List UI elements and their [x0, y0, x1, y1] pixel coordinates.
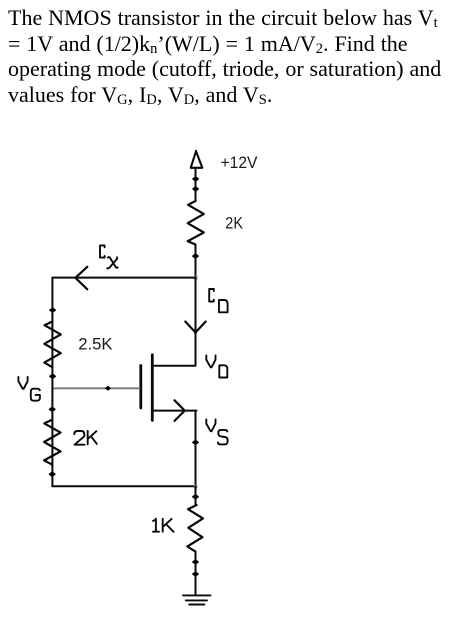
label VG — [18, 377, 40, 401]
bottom wire — [52, 485, 195, 487]
junction dot — [50, 374, 56, 379]
resistor 2K (left) — [44, 420, 61, 465]
node drain-top junction — [194, 276, 198, 280]
junction dot — [193, 254, 199, 259]
resistor 2.5K — [44, 321, 61, 367]
junction dot — [193, 440, 199, 445]
junction dot — [49, 407, 55, 412]
label 2K (left, stick font) — [74, 431, 97, 445]
label ID — [209, 289, 227, 312]
source vertical wire — [195, 411, 197, 487]
node source-bottom junction — [194, 484, 198, 488]
+12V supply arrow — [191, 151, 203, 168]
resistor 1K — [187, 505, 203, 551]
ground — [183, 595, 211, 604]
svg-text:2K: 2K — [225, 214, 243, 233]
NMOS gate bar — [139, 366, 142, 409]
source wire + arrow — [153, 410, 197, 412]
Ix arrow — [75, 267, 87, 290]
wire 1K to ground — [195, 551, 197, 594]
left branch vertical wire — [51, 278, 53, 487]
wire node down to ID arrow — [195, 278, 197, 333]
wire supply to R 2K — [195, 168, 197, 201]
wire ID to drain corner — [153, 333, 196, 366]
NMOS channel bar — [151, 355, 154, 421]
junction dot — [49, 472, 55, 477]
label 1K (stick font) — [153, 519, 174, 532]
junction dot — [193, 177, 199, 182]
junction dot — [193, 187, 199, 192]
svg-text:+12V: +12V — [221, 153, 259, 172]
label VD — [206, 356, 227, 378]
wire to 1K — [195, 486, 197, 505]
wire R2K to node — [195, 245, 197, 278]
junction dot — [50, 308, 56, 313]
wire Ix horizontal — [52, 277, 195, 279]
ID arrow — [185, 322, 205, 333]
svg-text:2.5K: 2.5K — [78, 334, 113, 353]
resistor 2K (right) — [188, 201, 204, 245]
junction dot — [193, 572, 199, 577]
label VS — [206, 419, 227, 444]
junction dot — [193, 494, 199, 499]
gate wire (gray) — [53, 387, 139, 389]
gate wire dot — [105, 386, 111, 391]
label Ix — [100, 245, 118, 268]
junction dot — [193, 560, 199, 565]
